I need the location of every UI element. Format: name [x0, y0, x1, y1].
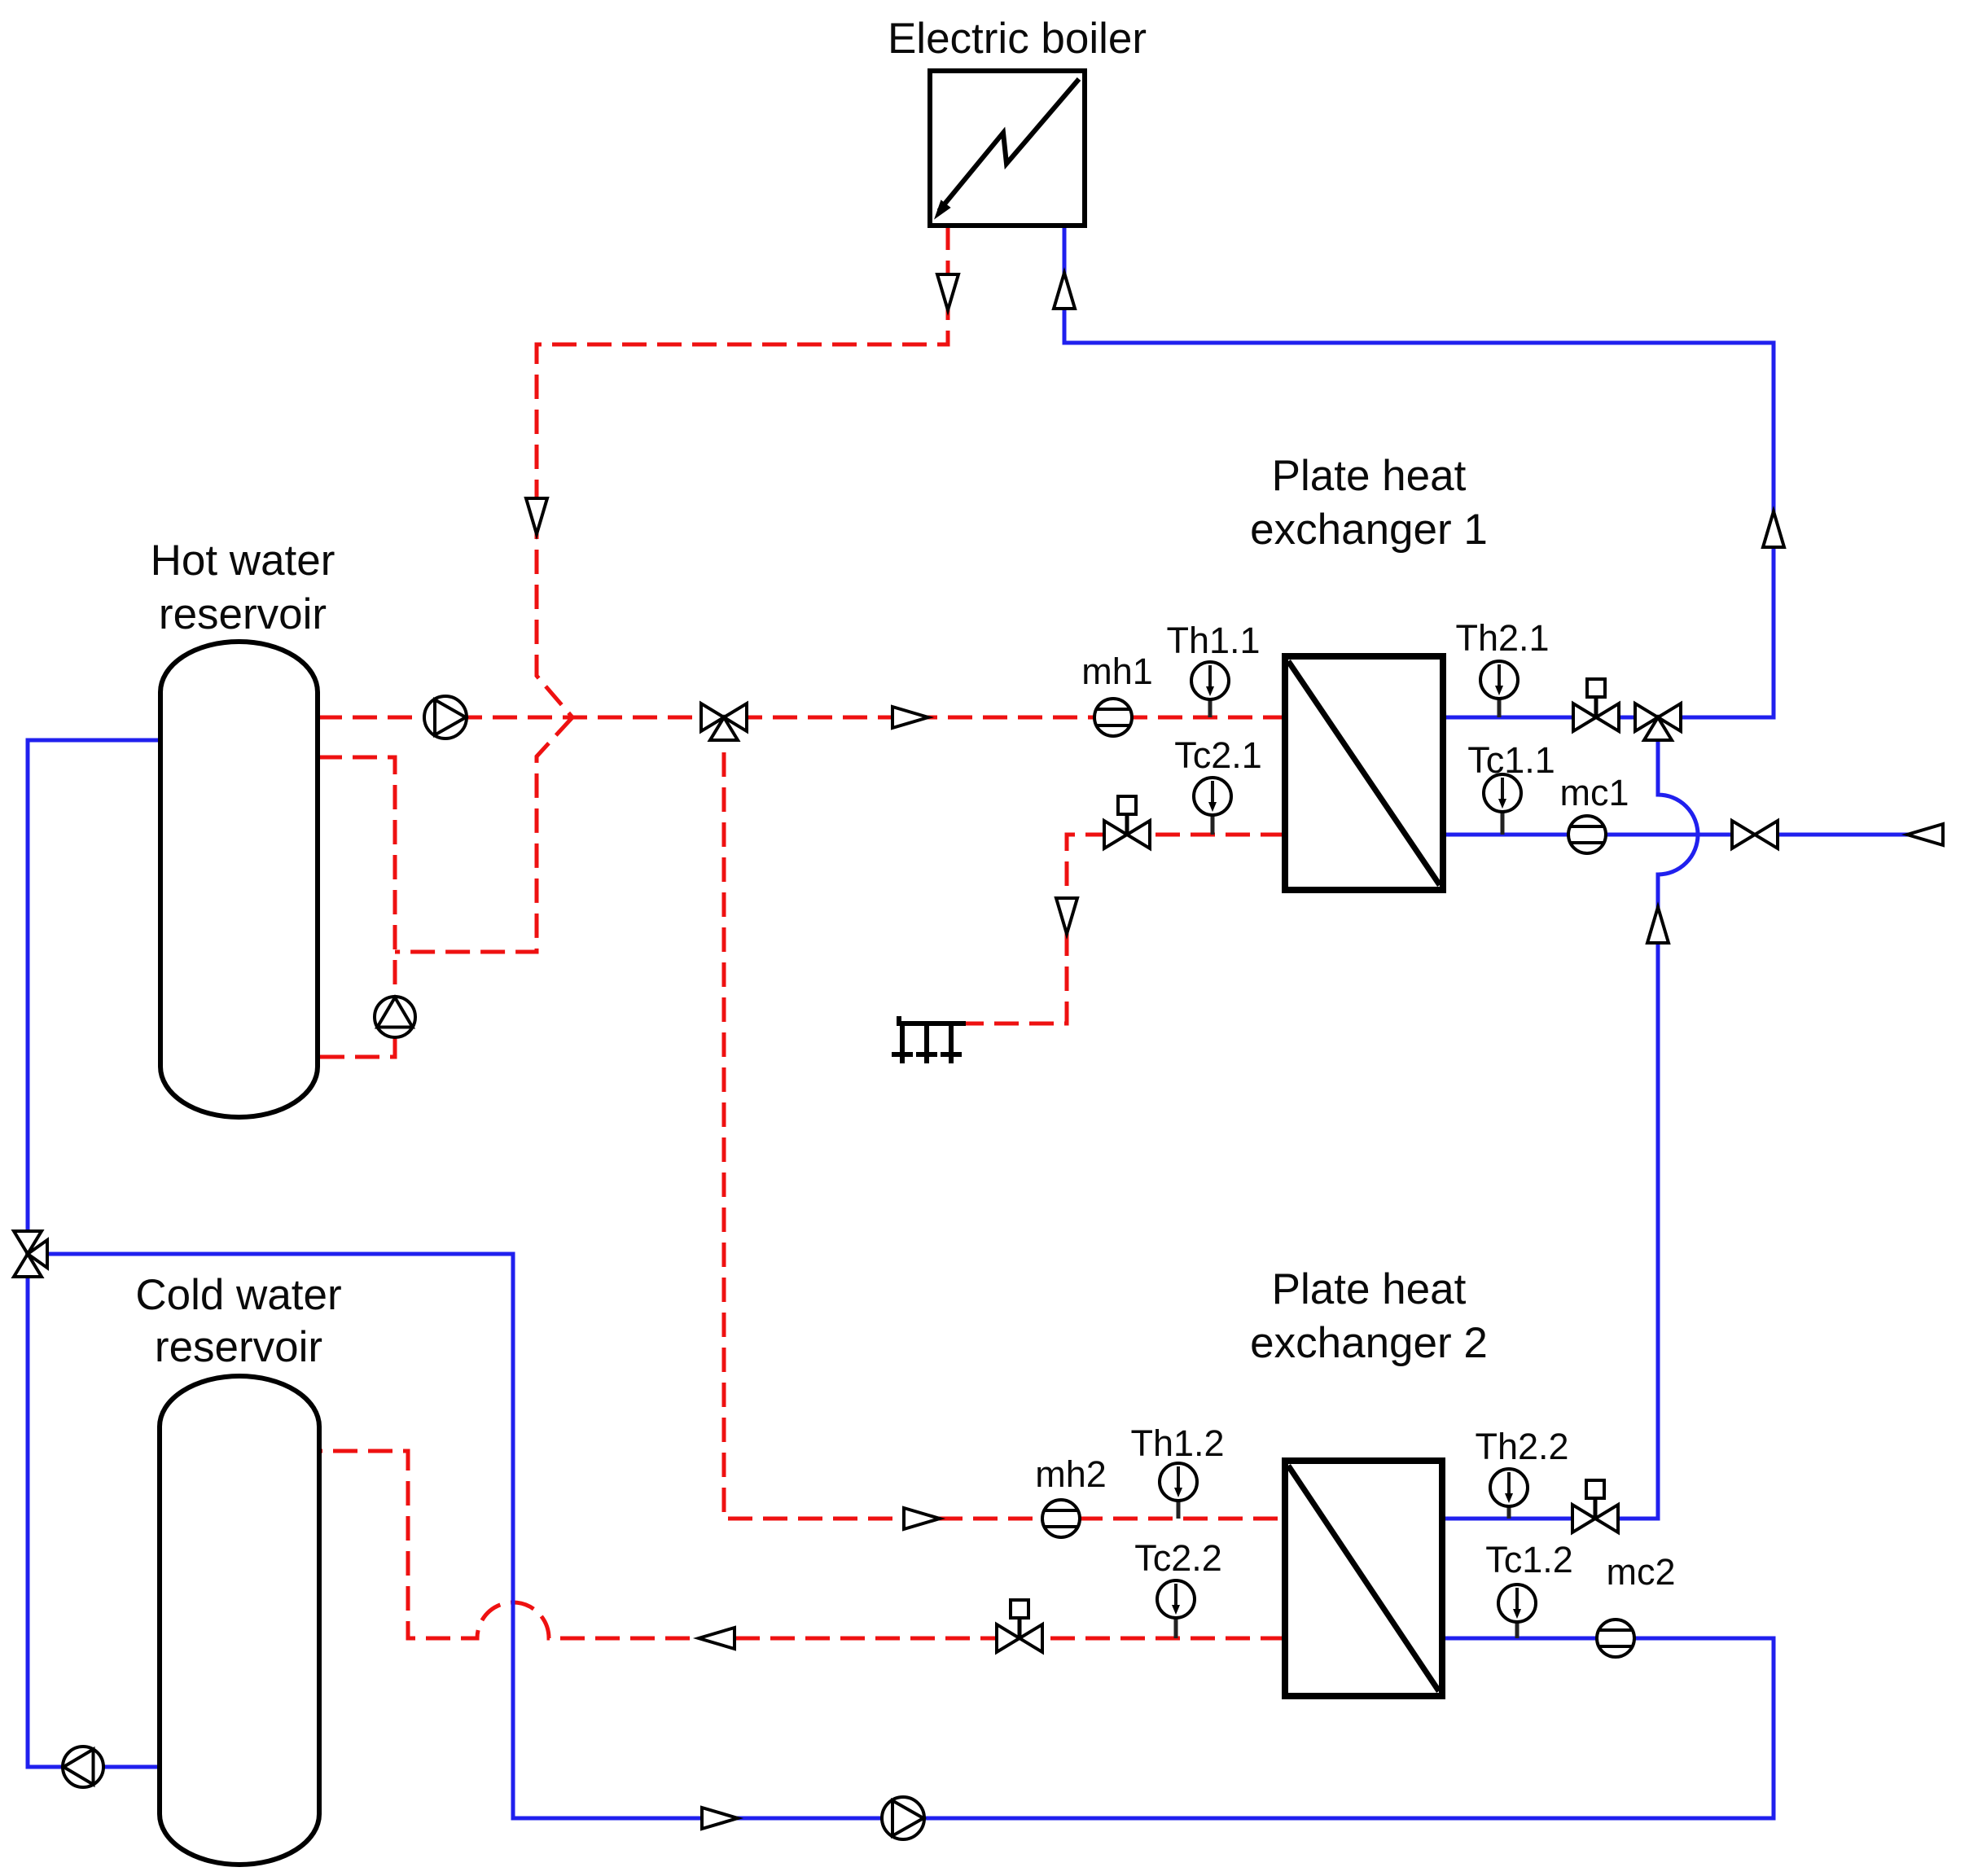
control valve with actuator on exchanger 1 drain branch	[1104, 796, 1150, 848]
plate heat exchanger 1	[1285, 656, 1443, 890]
svg-text:exchanger 2: exchanger 2	[1250, 1319, 1488, 1367]
plate heat exchanger 2	[1285, 1461, 1442, 1696]
svg-text:mh2: mh2	[1035, 1453, 1107, 1495]
wire cold: boiler inlet riser, across top and down to exchanger 1 outlet line	[1064, 226, 1774, 717]
svg-text:mh1: mh1	[1081, 651, 1153, 692]
pump on hot reservoir return	[375, 997, 415, 1037]
flow meter mh1	[1094, 699, 1132, 736]
control valve with actuator on exchanger 1 cold outlet	[1573, 679, 1619, 731]
svg-text:exchanger 1: exchanger 1	[1250, 506, 1488, 554]
control valve with actuator on exchanger 2 return line	[997, 1600, 1042, 1652]
temperature sensor Th1.1	[1191, 662, 1229, 717]
flow arrow up on cold line below hop	[1647, 907, 1669, 943]
svg-text:Hot water: Hot water	[151, 537, 335, 585]
wire hot: main supply from hot water reservoir to plate heat exchanger 1	[318, 716, 1285, 720]
temperature sensor Th2.1	[1480, 661, 1518, 717]
flow meter mc1	[1568, 816, 1606, 853]
hot water reservoir	[160, 642, 318, 1117]
svg-text:Tc2.1: Tc2.1	[1174, 734, 1262, 776]
flow meter mh2	[1042, 1500, 1080, 1537]
temperature sensor Tc1.1	[1484, 774, 1521, 835]
svg-text:Plate heat: Plate heat	[1272, 1265, 1467, 1313]
wire cold: exchanger 2 bottom line, right and down, bottom run, up to left valve	[47, 1254, 1774, 1818]
flow arrow right on bottom cold run	[702, 1808, 738, 1829]
electric boiler	[930, 71, 1085, 226]
wire cold: exchanger 1 bottom outlet line to right edge	[1443, 833, 1943, 837]
flow arrow right on hot supply line	[892, 707, 928, 728]
flow arrow up on boiler cold inlet	[1054, 273, 1075, 309]
three-way valve on left cold riser	[14, 1231, 47, 1277]
svg-text:Electric boiler: Electric boiler	[888, 15, 1147, 63]
flow arrow left on exchanger 2 return line	[699, 1628, 735, 1649]
svg-text:Tc2.2: Tc2.2	[1134, 1537, 1222, 1579]
temperature sensor Tc2.1	[1194, 778, 1231, 835]
svg-text:reservoir: reservoir	[155, 1323, 322, 1371]
pump on bottom cold run	[882, 1797, 924, 1839]
wire hot: exchanger 1 cold-side outlet to drain manifold	[966, 835, 1285, 1023]
flow arrow up on right cold riser	[1763, 511, 1784, 547]
svg-text:Th1.2: Th1.2	[1130, 1422, 1224, 1464]
svg-text:Cold water: Cold water	[135, 1271, 341, 1319]
svg-text:Th2.1: Th2.1	[1455, 617, 1549, 659]
svg-text:mc2: mc2	[1606, 1551, 1675, 1593]
svg-text:mc1: mc1	[1559, 772, 1629, 813]
control valve with actuator on exchanger 2 cold outlet	[1572, 1480, 1618, 1532]
wire hot: junction diagonal down to reservoir return leg	[395, 717, 572, 952]
three-way valve on hot supply line	[701, 703, 747, 740]
flow arrow down on hot drop line	[526, 498, 547, 534]
flow arrow left at right end of cold outlet line	[1907, 824, 1943, 845]
wire hot: reservoir mid port down through pump to reservoir bottom port	[318, 757, 395, 1057]
svg-text:Plate heat: Plate heat	[1272, 452, 1467, 500]
wire hot: three-way valve branch down and right to plate heat exchanger 2	[724, 717, 1285, 1519]
pump on hot supply line	[424, 696, 467, 739]
flow meter mc2	[1597, 1620, 1634, 1657]
temperature sensor Tc1.2	[1498, 1585, 1536, 1638]
cold water reservoir	[160, 1376, 319, 1865]
flow arrow down on boiler hot outlet	[937, 274, 958, 310]
flow arrow down on exchanger 1 drain branch	[1056, 898, 1077, 934]
wire cold: left riser from hot reservoir to three-way valve to cold reservoir	[28, 740, 160, 1767]
svg-text:reservoir: reservoir	[159, 590, 327, 638]
wire hot: exchanger 2 return with hop over blue line to cold water reservoir	[319, 1451, 1285, 1638]
svg-text:Tc1.1: Tc1.1	[1467, 739, 1555, 781]
flow arrow right on hot line to exchanger 2	[904, 1508, 940, 1529]
shut-off valve on cold outlet line	[1732, 821, 1778, 848]
temperature sensor Th1.2	[1160, 1463, 1197, 1519]
wire cold: three-way valve down with hop, to plate heat exchanger 2 outlet	[1442, 732, 1698, 1519]
three-way valve on cold line after exchanger 1	[1635, 703, 1681, 740]
temperature sensor Tc2.2	[1157, 1580, 1195, 1638]
svg-text:Tc1.2: Tc1.2	[1485, 1539, 1573, 1580]
drain manifold	[892, 1016, 966, 1063]
temperature sensor Th2.2	[1490, 1469, 1528, 1519]
wire hot: electric boiler outlet down, left and down to junction (red dashed)	[537, 226, 948, 717]
svg-text:Th1.1: Th1.1	[1166, 620, 1260, 661]
pump on cold reservoir inlet	[63, 1747, 103, 1787]
svg-text:Th2.2: Th2.2	[1475, 1426, 1568, 1467]
